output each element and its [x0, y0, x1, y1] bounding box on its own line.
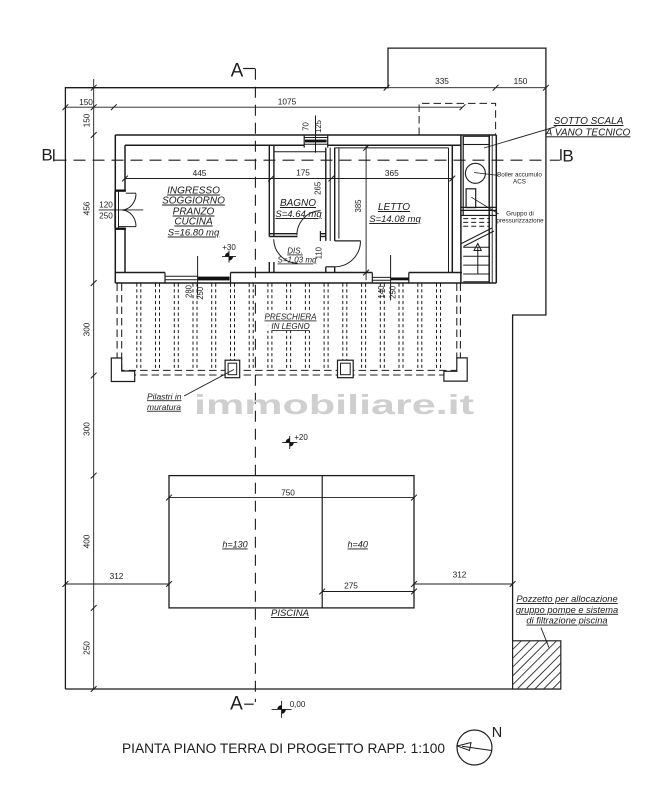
svg-text:gruppo pompe e sistema: gruppo pompe e sistema	[516, 605, 618, 615]
svg-text:150: 150	[79, 97, 93, 107]
property boundary	[65, 48, 546, 689]
wall bagno/letto	[325, 148, 327, 241]
level marker 0,00	[272, 708, 292, 710]
deck label preschiera	[263, 312, 318, 332]
svg-text:0,00: 0,00	[290, 700, 306, 709]
svg-text:150: 150	[82, 113, 92, 127]
section line B-B	[55, 159, 544, 161]
bottom dimension 312 / 312	[65, 583, 169, 585]
svg-text:300: 300	[82, 422, 92, 436]
svg-text:120: 120	[99, 201, 113, 210]
svg-text:265: 265	[314, 181, 323, 195]
svg-text:+30: +30	[222, 243, 236, 252]
dashed overhang rectangle	[419, 103, 496, 135]
svg-text:445: 445	[193, 168, 207, 178]
svg-text:B: B	[41, 146, 52, 165]
vano bottom wall	[461, 206, 496, 208]
door letto	[335, 240, 361, 242]
top dimension line 150+1075	[65, 106, 462, 108]
deck plank dashed lines	[137, 284, 441, 371]
window bagno top (70/125)	[303, 135, 305, 148]
pool dim 750	[169, 497, 414, 499]
svg-text:280: 280	[184, 284, 193, 298]
svg-text:1075: 1075	[278, 96, 297, 106]
stairs	[461, 214, 496, 216]
svg-text:250: 250	[388, 285, 397, 299]
svg-text:750: 750	[281, 487, 295, 497]
svg-text:456: 456	[82, 201, 92, 215]
svg-text:365: 365	[385, 168, 399, 178]
vertical dim 385 in letto	[365, 146, 367, 281]
svg-text:70: 70	[301, 122, 310, 131]
svg-text:140: 140	[377, 285, 386, 299]
svg-text:PIANTA PIANO TERRA DI PROGETTO: PIANTA PIANO TERRA DI PROGETTO RAPP. 1:1…	[122, 740, 445, 756]
svg-text:immobiliare.it: immobiliare.it	[194, 389, 474, 420]
north symbol	[457, 730, 492, 765]
bagno inset line	[274, 151, 326, 153]
svg-text:S=1,03 mq: S=1,03 mq	[278, 256, 317, 265]
svg-text:150: 150	[514, 76, 528, 86]
svg-text:250: 250	[82, 641, 92, 655]
svg-text:+20: +20	[294, 433, 308, 442]
svg-text:Pozzetto per allocazione: Pozzetto per allocazione	[516, 594, 617, 604]
svg-text:175: 175	[296, 168, 310, 178]
svg-text:B: B	[562, 146, 573, 165]
pilaster mid 1	[225, 360, 240, 378]
svg-text:DIS.: DIS.	[287, 247, 303, 256]
svg-text:335: 335	[435, 76, 449, 86]
svg-text:275: 275	[344, 581, 358, 591]
interior dimension line 445/175/365	[125, 178, 452, 180]
pool divider	[321, 476, 323, 608]
door dis	[274, 239, 298, 263]
window letto (140/250)	[371, 273, 373, 284]
svg-text:PISCINA: PISCINA	[271, 608, 309, 619]
svg-text:S=4.64 mq: S=4.64 mq	[275, 209, 322, 220]
svg-text:SOTTO SCALA: SOTTO SCALA	[554, 116, 624, 127]
svg-text:PRESCHIERA: PRESCHIERA	[264, 313, 316, 322]
svg-text:Pilastri in: Pilastri in	[147, 391, 182, 401]
svg-text:muratura: muratura	[147, 402, 181, 412]
pilaster corner right	[444, 358, 467, 381]
deck dashed boundary	[117, 284, 460, 376]
svg-text:pressurizzazione: pressurizzazione	[496, 217, 544, 224]
entrance door 120/250	[115, 190, 126, 192]
svg-text:CUCINA: CUCINA	[174, 217, 213, 228]
svg-text:A: A	[231, 61, 244, 82]
level marker +20	[282, 442, 297, 444]
level marker +30	[222, 256, 236, 258]
svg-text:312: 312	[110, 571, 124, 581]
svg-text:Gruppo di: Gruppo di	[506, 210, 534, 217]
svg-text:385: 385	[354, 199, 363, 213]
svg-text:S=16.80 mq: S=16.80 mq	[168, 228, 220, 239]
wall soggiorno/bagno	[268, 145, 270, 236]
svg-text:A: A	[230, 694, 243, 715]
stairs up arrow	[477, 247, 479, 274]
svg-text:125: 125	[314, 119, 323, 133]
pilaster mid 2	[338, 360, 354, 378]
svg-text:N: N	[492, 725, 502, 741]
pool outline	[169, 476, 414, 608]
pool dim 275	[322, 591, 414, 593]
svg-text:di filtrazione piscina: di filtrazione piscina	[526, 616, 607, 626]
svg-text:S=14.08 mq: S=14.08 mq	[369, 214, 421, 225]
svg-text:312: 312	[453, 570, 467, 580]
svg-text:SOGGIORNO: SOGGIORNO	[162, 196, 225, 207]
top-right dimension 335+150	[388, 87, 546, 89]
svg-text:A VANO TECNICO: A VANO TECNICO	[545, 127, 631, 138]
section line A-A	[254, 69, 256, 702]
svg-text:400: 400	[82, 534, 92, 548]
boiler circle	[465, 163, 485, 183]
svg-text:h=130: h=130	[222, 540, 247, 550]
svg-text:IN LEGNO: IN LEGNO	[271, 322, 309, 331]
vano tecnico shelf box	[463, 136, 489, 144]
svg-text:250: 250	[99, 212, 113, 221]
window soggiorno (280/250)	[164, 273, 166, 284]
door bagno	[297, 211, 321, 236]
svg-text:300: 300	[82, 322, 92, 336]
svg-text:Boiler accumulo: Boiler accumulo	[497, 172, 542, 179]
svg-text:ACS: ACS	[513, 179, 526, 186]
svg-text:BAGNO: BAGNO	[280, 198, 316, 209]
letto inset lines	[335, 147, 449, 149]
pozzetto hatched box	[513, 641, 561, 689]
gruppo pressurizzazione rect	[466, 189, 476, 208]
pilaster corner left	[111, 358, 134, 382]
exterior walls	[114, 135, 116, 283]
wall bagno/dis	[269, 233, 297, 235]
leader sotto scala	[484, 127, 556, 149]
left vertical dimension chain	[93, 79, 95, 689]
svg-text:h=40: h=40	[348, 540, 368, 550]
svg-text:LETTO: LETTO	[378, 202, 410, 213]
